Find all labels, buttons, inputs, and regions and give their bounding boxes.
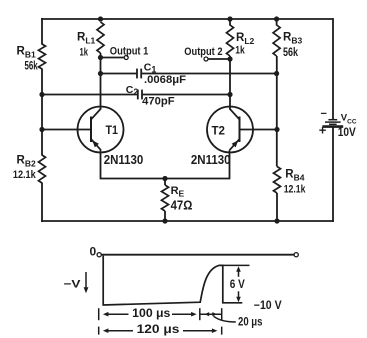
svg-text:56k: 56k <box>25 59 38 73</box>
waveform trace <box>103 256 242 305</box>
dimension 120us <box>99 324 222 336</box>
wire RB4 bottom <box>274 193 279 224</box>
wire top rail <box>41 18 333 20</box>
resistor RB3 <box>273 25 302 59</box>
wire T2 emitter <box>229 150 231 179</box>
junction RB3 top <box>274 16 279 25</box>
dimension 100us <box>99 308 200 320</box>
svg-text:C1: C1 <box>144 62 157 75</box>
transistor T2 2N1130 <box>191 107 253 168</box>
wire T1 emitter <box>100 150 102 179</box>
wire left rail lower <box>41 183 43 222</box>
resistor RB1 <box>17 44 46 73</box>
node Output 2 <box>184 46 232 62</box>
wire RL2 to collector <box>229 56 231 110</box>
wire T1 base <box>42 129 91 131</box>
label -10V <box>254 300 282 312</box>
svg-text:470pF: 470pF <box>142 96 175 108</box>
dimension 20us <box>200 308 263 328</box>
wire left rail middle <box>41 69 43 156</box>
resistor RL2 <box>227 25 255 56</box>
wire T2 base <box>240 129 278 131</box>
svg-text:56k: 56k <box>283 45 298 59</box>
svg-text:12.1k: 12.1k <box>284 184 306 196</box>
svg-text:47Ω: 47Ω <box>171 198 193 213</box>
junction T1 base <box>39 127 44 132</box>
resistor RB2 <box>13 155 46 184</box>
wire zero line <box>101 254 294 256</box>
svg-text:T1: T1 <box>106 123 119 137</box>
terminal waveform left <box>97 253 101 257</box>
transistor T1 2N1130 <box>78 107 144 168</box>
wire emitter rail <box>101 178 230 180</box>
resistor RB4 <box>274 167 307 196</box>
junction T2 base <box>274 127 279 132</box>
svg-text:−10 V: −10 V <box>254 300 282 312</box>
svg-text:T2: T2 <box>212 124 226 138</box>
wire left rail upper <box>41 18 43 44</box>
svg-text:VCC: VCC <box>341 113 357 126</box>
junction RL1 top <box>98 16 103 21</box>
capacitor C2 <box>39 84 232 108</box>
svg-text:+: + <box>319 123 327 138</box>
svg-text:12.1k: 12.1k <box>13 169 37 181</box>
svg-text:RL1: RL1 <box>77 32 96 46</box>
resistor RE <box>162 176 193 224</box>
wire RL1 to collector <box>100 53 102 110</box>
wire bottom rail <box>41 220 334 222</box>
svg-text:Output 2: Output 2 <box>184 46 222 58</box>
svg-text:Output 1: Output 1 <box>110 46 149 58</box>
svg-text:100 μs: 100 μs <box>132 308 170 320</box>
svg-text:1k: 1k <box>235 44 245 56</box>
label -V arrow <box>64 272 89 293</box>
svg-text:1k: 1k <box>80 46 89 58</box>
svg-text:2N1130: 2N1130 <box>104 152 144 167</box>
capacitor C1 <box>98 62 279 87</box>
svg-text:RB1: RB1 <box>17 46 36 60</box>
battery Vcc 10V <box>319 108 357 139</box>
junction RL2 top <box>227 16 232 25</box>
svg-text:20 μs: 20 μs <box>238 316 263 328</box>
svg-text:RB3: RB3 <box>283 32 302 46</box>
svg-text:C2: C2 <box>126 84 139 97</box>
svg-text:−: − <box>321 108 327 120</box>
wire RB3 to RB4 <box>276 56 278 167</box>
svg-text:6 V: 6 V <box>230 279 245 291</box>
svg-text:−V: −V <box>64 279 82 291</box>
label 0 <box>90 245 97 259</box>
svg-text:RB2: RB2 <box>17 155 36 169</box>
svg-text:.0068μF: .0068μF <box>144 74 186 86</box>
svg-text:RB4: RB4 <box>285 169 304 183</box>
terminal waveform right <box>294 253 298 257</box>
resistor RL1 <box>77 22 104 58</box>
svg-text:10V: 10V <box>338 127 356 139</box>
wire right rail lower <box>332 126 334 221</box>
svg-text:2N1130: 2N1130 <box>191 152 231 167</box>
wire right rail upper <box>332 18 334 119</box>
dimension 6V <box>223 265 250 302</box>
node Output 1 <box>98 46 148 61</box>
svg-text:120 μs: 120 μs <box>137 324 180 336</box>
svg-text:0: 0 <box>90 245 97 259</box>
